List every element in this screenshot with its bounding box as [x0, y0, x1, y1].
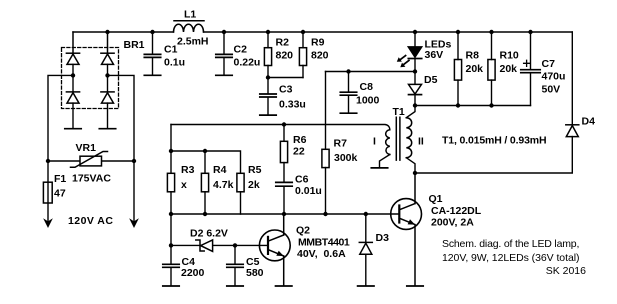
- wire bridge right bottom: [107, 103, 109, 128]
- ground bridge left: [65, 128, 81, 130]
- node VR1 left: [46, 159, 50, 163]
- svg-text:R3: R3: [181, 164, 195, 176]
- svg-text:F1: F1: [54, 173, 66, 185]
- svg-text:C8: C8: [360, 81, 374, 93]
- svg-text:1000: 1000: [356, 95, 380, 107]
- svg-text:L1: L1: [184, 9, 196, 21]
- diode BR1-D-botleft: [66, 92, 79, 103]
- svg-text:II: II: [418, 135, 424, 147]
- svg-text:C2: C2: [234, 44, 248, 56]
- svg-text:C3: C3: [279, 84, 293, 96]
- node R3 top: [169, 149, 173, 153]
- node R4 bottom: [203, 212, 207, 216]
- svg-text:CA-122DL: CA-122DL: [431, 205, 482, 217]
- svg-text:R4: R4: [213, 164, 227, 176]
- svg-text:R5: R5: [248, 164, 262, 176]
- svg-text:20k: 20k: [466, 63, 484, 75]
- node C5 top: [233, 243, 237, 247]
- capacitor C3: [260, 78, 276, 116]
- resistor R9: [299, 30, 306, 78]
- capacitor C1: [144, 30, 160, 76]
- wire right AC line: [108, 75, 135, 223]
- capacitor C2: [216, 30, 232, 76]
- bridge rectifier BR1 dashed box: [62, 48, 119, 109]
- node VR1 right: [132, 159, 136, 163]
- diode D4: [415, 32, 579, 173]
- svg-text:820: 820: [311, 50, 329, 62]
- LED D1: [408, 30, 421, 72]
- svg-text:300k: 300k: [334, 152, 358, 164]
- wire C8 link: [326, 71, 416, 73]
- node bridge right AC: [105, 73, 109, 77]
- svg-text:R2: R2: [276, 37, 290, 49]
- node Q1 collector: [413, 171, 417, 175]
- svg-text:C1: C1: [164, 44, 178, 56]
- svg-text:MMBT4401: MMBT4401: [298, 237, 350, 249]
- fuse F1: [43, 182, 52, 203]
- svg-text:Q2: Q2: [296, 225, 310, 237]
- node D3 top: [364, 212, 368, 216]
- svg-text:2.5mH: 2.5mH: [177, 35, 209, 47]
- svg-text:VR1: VR1: [76, 142, 97, 154]
- svg-text:36V: 36V: [425, 49, 444, 61]
- svg-text:2200: 2200: [181, 267, 205, 279]
- wire top rail: [73, 31, 572, 33]
- transformer T1: [171, 106, 415, 174]
- transistor Q1: [391, 173, 422, 285]
- node C6 Q2 collector: [282, 212, 286, 216]
- svg-text:2k: 2k: [248, 179, 260, 191]
- wire bridge left mid: [72, 64, 74, 91]
- svg-text:47: 47: [54, 187, 66, 199]
- node bridge left AC: [71, 73, 75, 77]
- wire VR1 link: [48, 160, 134, 162]
- resistor R4: [201, 173, 208, 192]
- svg-text:470u: 470u: [542, 71, 566, 83]
- node R7 bottom: [323, 212, 327, 216]
- transistor Q2: [259, 214, 290, 285]
- svg-text:22: 22: [293, 145, 305, 157]
- diode BR1-D-topleft: [66, 32, 79, 64]
- diode D5: [409, 72, 422, 106]
- svg-text:120V AC: 120V AC: [68, 215, 113, 227]
- svg-text:x: x: [181, 179, 187, 191]
- ground bridge right: [99, 128, 115, 130]
- svg-text:Schem. diag. of the LED lamp,: Schem. diag. of the LED lamp,: [442, 238, 579, 250]
- svg-text:0.22u: 0.22u: [234, 56, 261, 68]
- capacitor C8: [340, 72, 356, 114]
- LED light arrows: [397, 56, 409, 68]
- svg-text:R7: R7: [334, 138, 348, 150]
- node D5 bottom: [413, 103, 417, 107]
- node bridge top right on rail: [105, 30, 109, 34]
- wire bridge left bottom: [72, 103, 74, 128]
- svg-text:20k: 20k: [500, 63, 518, 75]
- capacitor C5: [227, 245, 243, 286]
- resistor R8: [454, 30, 461, 108]
- zener D2: [196, 240, 213, 252]
- resistor R7: [322, 72, 329, 215]
- wire base line y214: [171, 213, 399, 215]
- svg-text:0.33u: 0.33u: [279, 99, 306, 111]
- capacitor C6: [276, 182, 292, 214]
- resistor R2: [264, 30, 271, 78]
- svg-text:C7: C7: [542, 58, 556, 70]
- ground D3: [358, 285, 374, 287]
- node R3 bottom: [169, 212, 173, 216]
- arrow AC right: [131, 220, 138, 227]
- svg-text:120V, 9W, 12LEDs (36V total): 120V, 9W, 12LEDs (36V total): [442, 252, 579, 264]
- svg-text:I: I: [373, 135, 376, 147]
- resistor R6: [280, 122, 287, 182]
- svg-text:R10: R10: [500, 49, 519, 61]
- svg-text:BR1: BR1: [124, 39, 145, 51]
- svg-text:4.7k: 4.7k: [213, 179, 234, 191]
- node R2 C3: [266, 75, 270, 79]
- svg-text:C5: C5: [246, 256, 260, 268]
- svg-text:0.01u: 0.01u: [295, 185, 322, 197]
- wire bottom right rail: [415, 105, 531, 107]
- inductor L1: [174, 21, 205, 32]
- svg-text:R8: R8: [466, 49, 480, 61]
- svg-text:D4: D4: [582, 115, 596, 127]
- svg-text:175VAC: 175VAC: [72, 172, 111, 184]
- wire R2 R9 bottom link: [268, 77, 303, 79]
- svg-text:D3: D3: [376, 232, 390, 244]
- resistor R3: [167, 173, 174, 192]
- wire bridge right mid: [107, 64, 109, 91]
- svg-text:C4: C4: [182, 256, 196, 268]
- arrow AC left: [45, 220, 52, 227]
- resistor R5: [237, 173, 244, 192]
- wire left AC line: [48, 75, 73, 223]
- capacitor C4: [163, 264, 179, 286]
- node R4 top: [203, 149, 207, 153]
- diode D3: [359, 214, 372, 285]
- svg-text:580: 580: [246, 267, 264, 279]
- node C8 top: [346, 69, 350, 73]
- ground Q2 emitter: [276, 285, 292, 287]
- wire R3 R4 R5 top link: [171, 151, 241, 173]
- svg-text:D2 6.2V: D2 6.2V: [190, 228, 228, 240]
- svg-text:Q1: Q1: [429, 193, 443, 205]
- wire left column: [170, 125, 172, 264]
- svg-text:T1: T1: [393, 106, 405, 118]
- node LED bottom: [413, 69, 417, 73]
- capacitor C7: [521, 30, 540, 106]
- wire D2 line y245.4: [171, 244, 268, 246]
- ground Q1 emitter: [407, 285, 423, 287]
- resistor R10: [488, 30, 495, 108]
- node D2 left: [169, 243, 173, 247]
- diode BR1-D-topright: [101, 32, 114, 64]
- svg-text:200V, 2A: 200V, 2A: [431, 216, 474, 228]
- svg-text:R6: R6: [293, 134, 307, 146]
- svg-text:820: 820: [276, 50, 294, 62]
- varistor VR1: [71, 152, 108, 168]
- svg-text:T1, 0.015mH / 0.93mH: T1, 0.015mH / 0.93mH: [442, 135, 546, 147]
- diode BR1-D-botright: [101, 92, 114, 103]
- svg-text:R9: R9: [311, 37, 325, 49]
- svg-text:C6: C6: [295, 173, 309, 185]
- svg-text:SK 2016: SK 2016: [546, 265, 586, 277]
- svg-text:50V: 50V: [542, 84, 561, 96]
- wire R4 R5 bottom leads: [205, 192, 241, 214]
- svg-text:D5: D5: [424, 74, 438, 86]
- svg-text:0.1u: 0.1u: [164, 56, 185, 68]
- svg-text:40V, 0.6A: 40V, 0.6A: [297, 248, 346, 260]
